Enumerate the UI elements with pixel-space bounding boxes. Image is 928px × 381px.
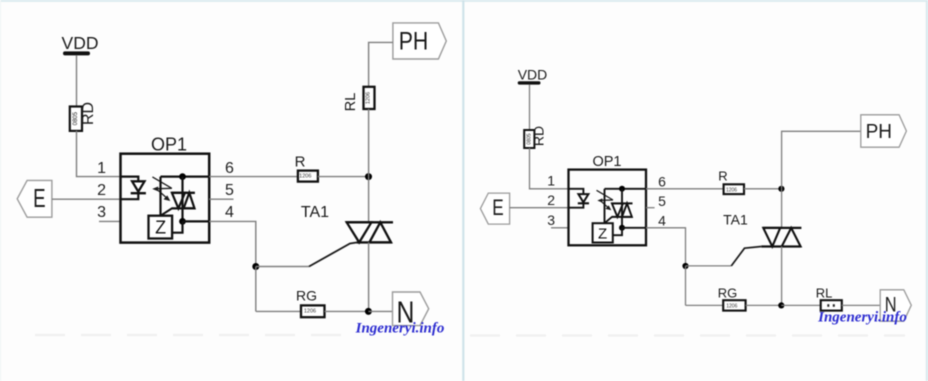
light arrow stroke 1	[152, 177, 171, 188]
wire pin6 interior (right)	[605, 188, 647, 190]
phototriac vertical wire	[181, 177, 183, 222]
triac TA1 triangle down (right)	[763, 228, 780, 247]
power symbol VDD bar	[63, 51, 90, 55]
svg-text:5: 5	[658, 193, 666, 209]
LED anode wire (right)	[569, 189, 584, 194]
wire E to pin2	[52, 198, 121, 200]
svg-text:RG: RG	[718, 285, 738, 300]
svg-text:OP1: OP1	[592, 154, 621, 170]
wire R to node	[318, 176, 369, 178]
junction dot gate node	[252, 263, 259, 270]
zener block Z box	[149, 216, 173, 239]
LED cathode bar	[131, 192, 146, 194]
wire to zener branch	[159, 177, 161, 216]
wire pin6 to R (right)	[646, 188, 724, 190]
wire pin5 stub (right)	[646, 207, 655, 209]
junction dot gate node (right)	[682, 263, 688, 269]
svg-text:6: 6	[658, 173, 666, 189]
wire RL to node	[368, 109, 370, 177]
junction dot N node	[365, 308, 372, 315]
triac TA1 top line (right)	[763, 227, 802, 229]
svg-text:1206: 1206	[299, 174, 311, 180]
triac TA1 triangle down	[347, 222, 372, 242]
svg-text:1206: 1206	[366, 92, 372, 104]
svg-text:OP1: OP1	[151, 135, 187, 155]
svg-text:4: 4	[225, 204, 234, 221]
connector E	[17, 180, 52, 217]
svg-text:3: 3	[97, 204, 106, 221]
wire pin3 stub	[99, 220, 121, 222]
wire E to pin2 (right)	[510, 207, 569, 209]
connector E (right)	[480, 193, 509, 224]
svg-text:1206: 1206	[726, 187, 737, 193]
triac TA1 bottom line	[357, 241, 392, 243]
svg-text:Z: Z	[155, 218, 166, 238]
wire node to triac (right)	[781, 189, 783, 228]
svg-text:Ingeneryi.info: Ingeneryi.info	[355, 321, 445, 337]
LED cathode wire	[121, 193, 139, 199]
wire pin4 to gate node	[209, 221, 256, 266]
wire gate node horizontal (right)	[686, 265, 732, 267]
resistor RL body (right)	[821, 300, 842, 310]
light arrow stroke 2 (right)	[600, 199, 614, 201]
wire VDD to RD (right)	[529, 84, 531, 130]
phototriac triangle up	[184, 193, 195, 209]
wire pin5 stub	[209, 198, 233, 200]
svg-text:RD: RD	[531, 126, 547, 146]
light arrow stroke 3	[158, 190, 168, 198]
wire R to node (right)	[744, 188, 781, 190]
wire to RG	[256, 310, 301, 312]
connector N (right)	[880, 290, 911, 321]
phototriac gate diagonal (right)	[605, 217, 612, 223]
phototriac bottom line	[172, 207, 195, 209]
wire pin3 stub (right)	[551, 227, 569, 229]
svg-text:VDD: VDD	[518, 67, 548, 83]
wire pin6 to R	[209, 176, 298, 178]
wire VDD to RD	[76, 55, 78, 106]
svg-text:RL: RL	[343, 93, 359, 112]
wire gate node down	[255, 267, 257, 312]
junction dot pin6 (right)	[619, 186, 625, 192]
junction dot node R/RL/TA1	[365, 173, 372, 180]
wire triac to node	[368, 242, 370, 311]
svg-text:E: E	[492, 196, 503, 221]
svg-text:4: 4	[658, 212, 666, 228]
phototriac triangle down	[172, 193, 185, 209]
svg-text:RD: RD	[80, 102, 97, 125]
svg-text:1: 1	[97, 160, 106, 177]
resistor RG body (right)	[723, 300, 745, 310]
svg-text:2: 2	[547, 192, 555, 208]
triac gate diagonal	[309, 243, 357, 267]
LED cathode wire (right)	[569, 203, 584, 207]
resistor R body (right)	[724, 184, 744, 194]
connector PH (right)	[861, 115, 907, 147]
triac TA1 triangle up (right)	[782, 228, 801, 247]
wire RL to N (right)	[842, 304, 880, 306]
resistor RL value marks (right)	[827, 304, 829, 307]
phototriac vertical wire (right)	[621, 189, 623, 228]
wire RD to pin1	[77, 131, 121, 177]
LED triangle (right)	[578, 194, 588, 202]
junction dot pin4 (right)	[619, 225, 625, 231]
zener block Z box (right)	[593, 223, 613, 242]
light arrow stroke 3 (right)	[602, 202, 610, 209]
wire RD to pin1 (right)	[530, 148, 569, 189]
light arrow stroke 1 (right)	[597, 190, 614, 200]
wire gate node horizontal	[256, 266, 309, 268]
svg-text:3: 3	[547, 212, 555, 228]
phototriac triangle up (right)	[622, 203, 632, 217]
svg-text:6: 6	[225, 160, 234, 177]
phototriac top line	[172, 192, 195, 194]
wire node to RL (right)	[781, 304, 820, 306]
wire zener to pin4 (right)	[613, 228, 622, 235]
junction dot bottom (right)	[778, 302, 784, 308]
wire gate node down (right)	[685, 266, 687, 305]
phototriac triangle down (right)	[612, 203, 623, 217]
wire node to triac	[368, 177, 370, 223]
junction dot pin6	[179, 173, 186, 180]
wire pin6 interior	[161, 176, 210, 178]
optocoupler OP1 box (right)	[569, 170, 647, 246]
connector PH	[393, 23, 446, 59]
svg-text:0805: 0805	[73, 111, 79, 125]
wire RG to node	[325, 310, 369, 312]
svg-text:1206: 1206	[304, 309, 316, 315]
svg-text:Ingeneryi.info: Ingeneryi.info	[817, 310, 907, 326]
LED anode wire	[121, 177, 139, 182]
resistor RL body	[364, 87, 375, 109]
triac gate diagonal (right)	[731, 247, 761, 266]
svg-text:R: R	[718, 168, 727, 183]
wire pin4 interior	[183, 220, 210, 222]
wire triac to node (right)	[781, 247, 783, 306]
svg-text:2: 2	[97, 182, 106, 199]
svg-text:R: R	[295, 154, 306, 171]
light arrow head left	[152, 187, 158, 192]
triac TA1 top line	[346, 221, 393, 223]
power symbol VDD bar (right)	[518, 81, 541, 84]
resistor RD body	[70, 107, 82, 131]
LED D1 triangle	[132, 181, 144, 191]
wire node to PH (right)	[782, 131, 861, 189]
wire RG to node (right)	[746, 304, 782, 306]
svg-text:TA1: TA1	[723, 212, 748, 228]
phototriac bottom line (right)	[612, 216, 633, 218]
triac TA1 triangle up	[369, 222, 391, 242]
wire to zener branch (right)	[604, 189, 606, 223]
svg-text:RL: RL	[816, 285, 833, 300]
svg-text:PH: PH	[399, 27, 429, 55]
light arrow head left (right)	[597, 198, 602, 202]
wire node to N	[368, 310, 392, 312]
junction dot node R (right)	[778, 186, 784, 192]
LED cathode bar (right)	[578, 202, 589, 204]
light arrow stroke 2	[155, 187, 172, 190]
svg-text:VDD: VDD	[62, 33, 99, 53]
svg-text:TA1: TA1	[301, 204, 329, 221]
wire to RG (right)	[686, 304, 724, 306]
phototriac gate diagonal	[161, 208, 172, 215]
svg-text:1: 1	[547, 173, 555, 189]
svg-text:PH: PH	[866, 121, 892, 144]
light arrow head lower	[164, 195, 171, 201]
wire pin4 interior (right)	[622, 227, 646, 229]
triac TA1 bottom line (right)	[761, 245, 800, 247]
svg-text:5: 5	[225, 182, 234, 199]
svg-text:RG: RG	[296, 287, 317, 303]
resistor R body	[298, 171, 318, 182]
resistor RD body (right)	[524, 130, 534, 148]
phototriac top line (right)	[612, 202, 633, 204]
wire zener to pin4	[172, 221, 182, 232]
connector N	[393, 292, 429, 326]
light arrow head lower (right)	[605, 205, 611, 210]
junction dot pin4	[179, 218, 186, 225]
wire pin4 to gate node (right)	[646, 228, 686, 266]
svg-text:1206: 1206	[726, 304, 737, 310]
svg-text:E: E	[33, 183, 45, 213]
resistor RG body	[301, 305, 325, 317]
wire PH to RL	[369, 42, 393, 86]
optocoupler OP1 box	[121, 154, 210, 243]
svg-text:Z: Z	[598, 225, 607, 242]
